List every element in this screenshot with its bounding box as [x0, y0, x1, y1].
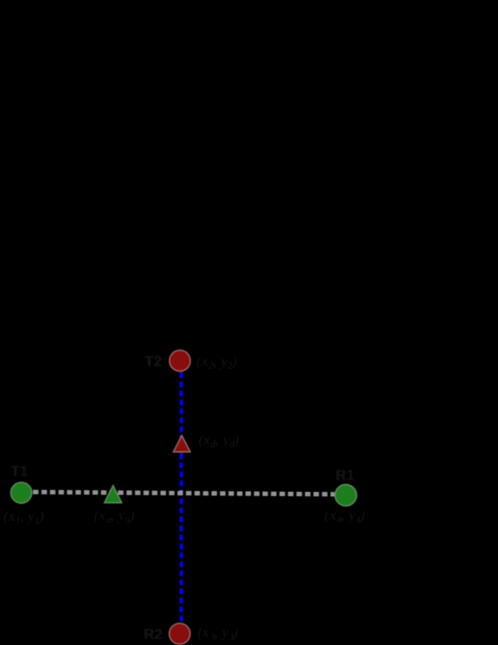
svg-text:T1: T1: [11, 463, 29, 480]
svg-text:R2: R2: [144, 626, 163, 643]
svg-text:R1: R1: [336, 467, 355, 484]
svg-text:T2: T2: [145, 353, 163, 370]
